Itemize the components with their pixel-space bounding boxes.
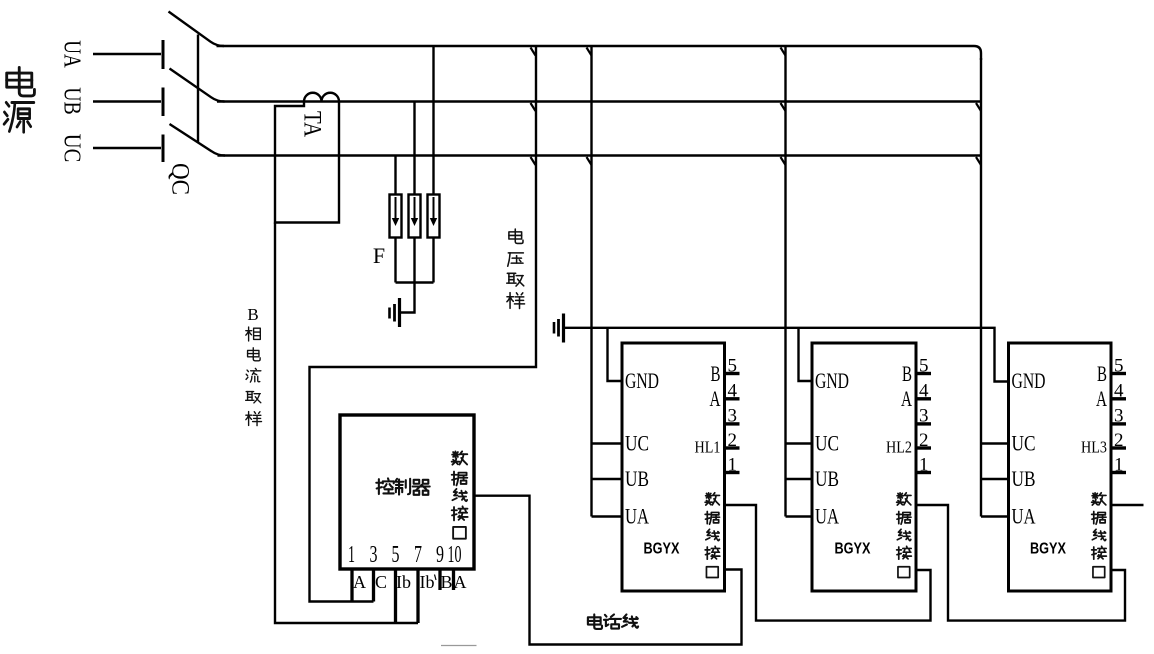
svg-text:UB: UB xyxy=(625,466,649,491)
fuse arrow B xyxy=(414,197,416,219)
label 数据线接口 U3 xyxy=(1092,493,1107,578)
controller pin numbers 1 3 5 7 9 10 xyxy=(348,542,462,568)
svg-text:GND: GND xyxy=(1012,368,1046,393)
junction tick v974/bus2 xyxy=(976,103,981,111)
wire B-phase current sampling drop xyxy=(275,223,418,624)
wire UC stub unit2 xyxy=(786,442,813,444)
svg-text:UA: UA xyxy=(625,504,650,529)
wire UB stub unit3 xyxy=(981,478,1009,480)
pin ticks U2 xyxy=(916,374,931,473)
transformer TA secondary loop xyxy=(275,102,339,223)
fuse arrow C xyxy=(433,197,435,219)
contact bar phase C xyxy=(162,135,165,163)
wire bus UC (bottom) xyxy=(218,154,982,156)
svg-text:4: 4 xyxy=(919,381,929,402)
wire fuse A tail xyxy=(394,238,396,283)
svg-text:1: 1 xyxy=(348,542,355,568)
junction tick v536/bus3 xyxy=(531,157,536,165)
junction tick v591.5/bus1 xyxy=(587,48,592,56)
switch blade C xyxy=(170,124,226,156)
svg-text:7: 7 xyxy=(414,542,422,568)
svg-text:A: A xyxy=(1096,386,1108,411)
controller pin stub C xyxy=(372,569,375,602)
wire phase A input xyxy=(93,53,161,55)
label 电源 (power source) xyxy=(4,67,34,132)
ground symbol below fuses xyxy=(390,298,400,327)
svg-text:UC: UC xyxy=(1012,431,1036,456)
svg-text:Ib: Ib xyxy=(420,572,435,592)
controller pin stub Ib xyxy=(394,569,397,623)
svg-text:UA: UA xyxy=(815,504,840,529)
svg-text:UB: UB xyxy=(59,87,85,115)
wire GND stub unit1 xyxy=(608,328,623,381)
svg-text:UB: UB xyxy=(1012,466,1036,491)
wire fuse B tail xyxy=(413,238,415,283)
svg-text:5: 5 xyxy=(1114,356,1124,377)
ground symbol at GND bus xyxy=(554,314,564,343)
wire fuse B drop from bus2 xyxy=(413,102,415,195)
svg-text:A: A xyxy=(454,572,467,592)
wire UA stub unit3 xyxy=(981,515,1009,517)
switch blade A xyxy=(169,12,225,47)
wire UA stub unit2 xyxy=(786,515,813,517)
svg-text:C: C xyxy=(375,572,387,592)
svg-text:F: F xyxy=(373,243,385,268)
svg-text:HL3: HL3 xyxy=(1081,438,1107,457)
pin ticks U1 xyxy=(725,374,740,473)
svg-text:1: 1 xyxy=(728,455,738,476)
wire bus UA right vertical drop xyxy=(980,58,982,517)
svg-text:A: A xyxy=(710,386,722,411)
svg-text:B: B xyxy=(1097,361,1107,386)
svg-text:HL2: HL2 xyxy=(886,438,912,457)
svg-text:1: 1 xyxy=(1114,455,1124,476)
BGYX box U2 xyxy=(812,343,916,591)
wire phase C input xyxy=(93,147,161,149)
svg-text:UC: UC xyxy=(59,134,85,163)
label 数据线接口 (data line interface) controller xyxy=(452,451,468,538)
svg-text:GND: GND xyxy=(625,368,659,393)
label 数据线接口 U2 xyxy=(897,493,912,578)
svg-text:BGYX: BGYX xyxy=(835,541,871,558)
controller pin stub Ib2 xyxy=(416,569,419,623)
junction tick v785.5/bus2 xyxy=(781,103,786,111)
wire GND stub unit2 xyxy=(799,328,813,381)
svg-text:Ib: Ib xyxy=(396,572,411,592)
wire fuse C tail xyxy=(432,238,434,283)
svg-text:A: A xyxy=(901,386,913,411)
fuse F body C xyxy=(428,195,440,238)
wire phase B input xyxy=(93,100,161,102)
svg-text:HL1: HL1 xyxy=(695,438,721,457)
controller pin stub A10 xyxy=(452,569,455,590)
phone wire U2 to U3 xyxy=(916,505,1125,621)
junction tick v536/bus2 xyxy=(531,103,536,111)
controller box xyxy=(340,415,474,569)
contact bar phase A xyxy=(162,40,165,69)
wire UC stub unit1 xyxy=(592,442,623,444)
contact bar phase B xyxy=(162,88,165,117)
BGYX box U1 xyxy=(622,343,725,591)
phone wire U1 to U2 xyxy=(725,505,931,621)
fuse F body A xyxy=(390,195,402,238)
pin ticks U3 xyxy=(1111,374,1126,473)
switch blade B xyxy=(170,69,225,102)
switch linkage xyxy=(197,35,199,144)
svg-text:2: 2 xyxy=(1114,430,1124,451)
svg-text:3: 3 xyxy=(728,406,738,427)
junction tick v974/bus3 xyxy=(976,157,981,165)
wire UB stub unit2 xyxy=(786,478,813,480)
wire fuse ground drop xyxy=(400,283,415,313)
svg-text:1: 1 xyxy=(919,455,929,476)
svg-text:A: A xyxy=(353,572,366,592)
junction tick v785.5/bus1 xyxy=(781,48,786,56)
wire UC stub unit3 xyxy=(981,442,1009,444)
svg-text:2: 2 xyxy=(728,430,738,451)
svg-text:B: B xyxy=(247,305,258,324)
svg-text:4: 4 xyxy=(728,381,738,402)
svg-text:UB: UB xyxy=(815,466,839,491)
controller data wire to phone line xyxy=(474,496,742,645)
wire UA stub unit1 xyxy=(592,515,623,517)
svg-text:UC: UC xyxy=(625,431,649,456)
wire bus UB (middle) xyxy=(217,100,981,102)
label 数据线接口 U1 xyxy=(705,493,720,578)
svg-text:BGYX: BGYX xyxy=(644,541,680,558)
faint artifact line xyxy=(441,645,477,647)
wire fuse A drop from bus3 xyxy=(394,156,396,195)
svg-text:3: 3 xyxy=(1114,406,1124,427)
svg-text:BGYX: BGYX xyxy=(1030,541,1066,558)
wire fuse C drop from bus1 xyxy=(432,46,434,195)
label 控制器 (controller) xyxy=(376,478,429,494)
svg-text:UA: UA xyxy=(59,40,85,68)
svg-text:GND: GND xyxy=(815,368,849,393)
controller pin stub B xyxy=(438,569,441,590)
fuse F body B xyxy=(409,195,421,238)
svg-text:B: B xyxy=(711,361,721,386)
svg-text:4: 4 xyxy=(1114,381,1124,402)
svg-text:TA: TA xyxy=(299,111,326,137)
pin numbers 5-1 U1 xyxy=(728,356,738,476)
svg-text:B: B xyxy=(440,572,452,592)
svg-text:5: 5 xyxy=(728,356,738,377)
svg-text:QC: QC xyxy=(167,163,194,195)
svg-text:B: B xyxy=(902,361,912,386)
wire UB stub unit1 xyxy=(592,478,623,480)
controller pin stub A1 xyxy=(350,569,353,602)
BGYX box U3 xyxy=(1009,343,1112,591)
wire GND bus xyxy=(564,328,1009,382)
phone wire U3 out xyxy=(1111,504,1144,506)
fuse arrow A xyxy=(392,197,437,226)
junction tick v591.5/bus3 xyxy=(587,157,592,165)
junction tick v536/bus1 xyxy=(531,48,536,56)
wire phase feed drop unit1 xyxy=(590,46,592,517)
svg-text:5: 5 xyxy=(392,542,400,568)
svg-text:UA: UA xyxy=(1012,504,1037,529)
wire fuse common bar xyxy=(396,281,434,283)
svg-text:UC: UC xyxy=(815,431,839,456)
wire phase feed drop unit2 xyxy=(784,46,786,517)
svg-text:5: 5 xyxy=(919,356,929,377)
label 电话线 (telephone line) xyxy=(588,614,638,628)
pin numbers 5-1 U2 xyxy=(919,356,929,476)
label 电压取样 (voltage sampling) xyxy=(507,229,525,309)
svg-text:3: 3 xyxy=(919,406,929,427)
wire bus UA (top) xyxy=(217,46,982,60)
pin numbers 5-1 U3 xyxy=(1114,356,1124,476)
svg-text:9: 9 xyxy=(436,542,444,568)
junction tick v785.5/bus3 xyxy=(781,157,786,165)
controller pin letters A C Ib Ib' B A xyxy=(353,572,467,592)
junction ticks on verticals xyxy=(531,48,982,166)
svg-text:10: 10 xyxy=(448,542,462,568)
transformer TA winding bumps xyxy=(304,93,339,102)
wire voltage sampling drop xyxy=(310,46,537,602)
svg-text:3: 3 xyxy=(370,542,378,568)
svg-text:2: 2 xyxy=(919,430,929,451)
